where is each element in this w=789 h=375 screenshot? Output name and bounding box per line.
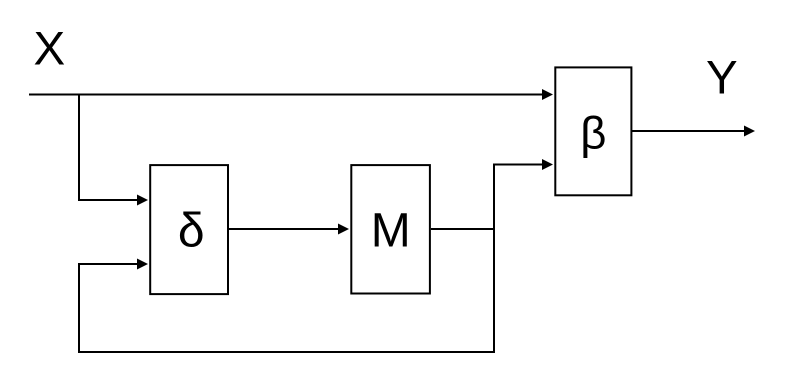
arrowhead into delta second input — [137, 259, 148, 270]
svg-text:Y: Y — [706, 52, 738, 105]
wire: feedback bottom horizontal — [78, 351, 495, 353]
block M — [351, 165, 430, 293]
wire: vertical junction line — [493, 165, 495, 353]
block delta — [150, 165, 228, 294]
arrowhead into delta first input — [137, 195, 148, 206]
wire: feedback horizontal into delta second input — [78, 263, 137, 265]
arrowhead into beta second input — [542, 159, 553, 170]
wire: feedback left vertical — [78, 264, 80, 353]
svg-text:β: β — [580, 107, 606, 158]
arrowhead at Y output — [744, 126, 755, 137]
wire: branch horizontal into delta first input — [78, 199, 137, 201]
arrowhead into M — [338, 224, 349, 235]
block beta — [555, 67, 631, 195]
wire: junction top horizontal into beta second input — [493, 164, 542, 166]
wire: M output to vertical junction — [431, 228, 495, 230]
arrowhead into beta top input — [542, 89, 553, 100]
wire: main X line to beta — [29, 94, 542, 96]
svg-text:X: X — [34, 23, 66, 76]
wire: branch vertical from X line down — [78, 94, 80, 201]
svg-text:δ: δ — [178, 205, 205, 258]
wire: beta output to Y — [632, 130, 744, 132]
wire: delta to M — [229, 228, 338, 230]
svg-text:M: M — [371, 205, 411, 258]
